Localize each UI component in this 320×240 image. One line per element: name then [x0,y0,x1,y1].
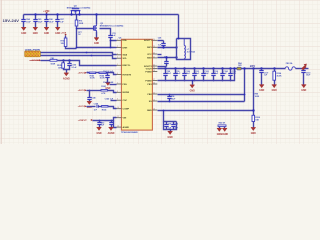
junction bottom C105 [230,80,232,82]
net flag +5VCC rowA [78,72,87,75]
junction bottom C103 [213,80,215,82]
svg-text:C94: C94 [168,123,171,126]
ground under C85 [33,28,38,35]
svg-text:COMP: COMP [123,109,130,111]
wire R75 bottom [66,47,77,49]
svg-text:FB3 3A: FB3 3A [286,62,293,65]
svg-text:GND: GND [96,133,101,135]
junction C107 [260,67,262,69]
svg-text:4.7K: 4.7K [101,92,106,95]
svg-text:100K: 100K [79,23,84,25]
ground under Q5 [94,38,99,45]
svg-text:0.1uF: 0.1uF [72,67,78,69]
svg-text:EN/CYL: EN/CYL [123,65,132,67]
svg-text:16: 16 [153,83,155,85]
wire SDA [41,53,117,55]
wire R104 top [274,69,276,72]
svg-text:VIN: VIN [123,118,127,120]
junction rail C87 [56,13,58,15]
ground R63 right AGND [221,128,228,135]
wire C76 down to DRH [110,41,112,48]
svg-text:AGND: AGND [221,133,228,136]
svg-text:GND: GND [44,33,49,35]
op-amp U6 left pins [117,39,132,129]
junction SDA pullup [86,52,88,54]
junction rowA [87,72,89,74]
svg-text:C148: C148 [94,103,99,106]
resistor R106 [252,115,260,121]
junction C93 [111,120,113,122]
wire inductor frame [177,39,191,60]
ferrite bead FB4 [237,62,243,70]
ground R104 [272,85,277,92]
ground C93 AGND [108,127,115,134]
wire Q4 gate down [76,15,78,21]
svg-text:22V: 22V [250,64,256,68]
wire BOOT2 [158,66,167,68]
svg-text:BSS84(SOT23,-0.13A/5R6): BSS84(SOT23,-0.13A/5R6) [100,24,124,27]
junction C76 DRL [110,40,112,42]
svg-text:TPS65261RHBR: TPS65261RHBR [121,132,138,134]
ground C147 [105,83,110,90]
junction R104 [273,67,275,69]
junction rail C99 [174,67,176,69]
capacitor C104 [220,69,224,81]
svg-text:DRL: DRL [123,40,128,42]
junction C110 [302,67,304,69]
svg-text:C28: C28 [158,37,161,39]
net flag +5VCC rowC [78,105,87,108]
capacitor C107 [259,69,263,74]
wire C110 gnd [303,74,305,85]
svg-text:SW2: SW2 [147,58,153,60]
wire C93 gnd [111,127,113,128]
junction SW1 frame [175,46,177,48]
svg-text:GND: GND [94,43,99,45]
ground under C86 [44,28,49,35]
svg-text:PGND: PGND [145,71,152,73]
svg-text:+5VCC: +5VCC [78,90,86,92]
wire Q5 gate [77,28,94,30]
svg-text:BSS84(SOT23,-0.13A/5R6): BSS84(SOT23,-0.13A/5R6) [67,7,91,10]
wire GND row [158,110,254,112]
wire BOOT1 [158,40,164,42]
ground C107 [259,85,264,92]
net flag +5VA [61,31,67,35]
svg-text:GND: GND [21,33,26,35]
junction Q4 drain [78,13,80,15]
svg-text:R145: R145 [102,108,107,111]
resistor R76 [75,20,84,26]
net flag +5VCC rowB [78,89,87,92]
ground under C87 [55,28,60,35]
resistor R144 [99,72,106,80]
junction fb vert [252,67,254,69]
wire VCC stub [158,54,162,56]
junction fb down rail [243,67,245,69]
junction bottom C99 [175,80,177,82]
wire C107 gnd [261,74,263,85]
junction rail gate [76,14,78,16]
wire C147 gnd [107,80,109,83]
resistor R105 [57,63,64,70]
svg-text:10: 10 [117,107,119,109]
wire VIN row [93,118,117,121]
capacitor C106 [67,61,71,69]
wire flag to R75 [65,36,67,39]
svg-text:DRH: DRH [123,47,128,49]
junction C30 SW2 [165,56,167,58]
capacitor C110 [301,69,305,74]
svg-text:INT/SYN: INT/SYN [123,74,132,76]
junction bank right [233,67,235,69]
svg-text:VOUT: VOUT [146,68,153,70]
ground C145 [87,102,92,109]
wire FB2 row [158,94,245,96]
svg-text:GND: GND [55,33,60,35]
capacitor C30 [164,58,168,67]
wire flag to FB2 [41,60,51,62]
capacitor C101 [192,69,196,81]
junction bottom C98 [165,80,167,82]
wire SS row [158,101,245,103]
svg-text:R63 0R: R63 0R [219,123,226,125]
transistor Q4 [67,4,91,14]
svg-text:10uF: 10uF [49,21,54,23]
wire R104 gnd [274,81,276,85]
svg-text:AGND: AGND [123,126,130,129]
svg-text:+5VCC: +5VCC [78,106,86,108]
capacitor C92 [97,121,101,127]
svg-text:36.5K: 36.5K [277,76,283,78]
junction SW2 frame [175,56,177,58]
transistor Q5 [94,23,124,32]
junction C96 top [169,94,171,96]
resistor R63 [218,123,226,127]
ferrite bead FB2 [50,58,57,66]
ground cap bank [190,85,195,92]
junction rail Q5 [95,13,97,15]
svg-text:14: 14 [153,100,155,102]
wire C76 to DRL [111,40,117,41]
junction rail C102 [202,67,204,69]
capacitor C145 [87,95,91,102]
wire R106 gnd [253,122,255,128]
ground R106 [251,128,256,135]
wire VOUT rail after bead [296,68,309,70]
capacitor C102 [201,69,205,81]
capacitor C105 [228,69,232,81]
junction rail C104 [221,67,223,69]
svg-text:AGND: AGND [63,77,70,80]
junction R105 [62,59,64,61]
inductor L7 [184,39,195,60]
svg-text:GND: GND [259,90,264,92]
wire R105 top [63,61,65,63]
wire rowC a [87,106,96,108]
ground under C84 [21,28,26,35]
wire gnd row drop [164,111,177,122]
junction rail C100 [183,67,185,69]
svg-text:23: 23 [153,46,155,48]
svg-text:12: 12 [117,126,119,128]
capacitor C96 [167,95,171,102]
wire rowA to pin [107,73,117,75]
wire Q5 to gnd [96,32,98,38]
junction bottom C104 [222,80,224,82]
wire CSC stub [111,100,117,102]
junction C28 SW1 [162,46,164,48]
svg-text:MODE: MODE [123,92,130,94]
capacitor C85 [33,15,43,28]
junction drop [163,110,165,112]
resistor R143 [89,72,96,80]
svg-text:C146 1uF: C146 1uF [105,98,114,101]
ground cap pair [168,131,173,138]
svg-text:10uF: 10uF [26,21,31,23]
wire R76 to DRH net [77,27,114,48]
svg-text:GND: GND [251,133,256,135]
junction R75 DRH [76,47,78,49]
junction bottom C102 [203,80,205,82]
svg-text:FSS: FSS [123,84,128,86]
capacitor C103 [211,69,215,81]
junction gnd row [252,109,254,111]
junction rail C98 [164,67,166,69]
capacitor C87 [55,15,64,28]
svg-text:VCC: VCC [147,54,152,56]
junction Q4 source [70,13,72,15]
junction bottom C100 [184,80,186,82]
svg-text:18: 18 [153,70,155,72]
wire rowB a [87,90,102,92]
junction C92 [99,120,101,122]
wire rowA b [96,72,100,74]
svg-text:+5VCC: +5VCC [78,73,86,75]
svg-text:GND: GND [33,33,38,35]
wire agnd lead [66,70,68,73]
wire 22V fb down [244,69,246,102]
svg-text:10uF: 10uF [38,21,43,23]
wire rowC to pin [109,107,117,109]
junction C76 DRH [110,47,112,49]
svg-text:19: 19 [153,67,155,69]
wire bank gnd stub [192,81,194,85]
wire R63 right [224,127,226,129]
svg-text:SCL: SCL [123,58,128,60]
ground AGND usb [63,73,70,80]
capacitor C147 [105,73,109,80]
capacitor C76 [108,34,112,40]
svg-text:FB2: FB2 [51,58,55,60]
svg-text:+5VA: +5VA [61,31,67,34]
wire cap pair bottom [164,122,177,130]
wire C92 gnd [99,127,101,128]
junction C96 bottom [169,101,171,103]
wire +VIN rail [24,14,179,16]
svg-text:R142 86.6K: R142 86.6K [103,81,114,84]
svg-text:GND: GND [272,90,277,92]
net flag +VIN [43,9,49,14]
net flag +5VUSB [29,59,41,62]
wire DRH pin [114,47,117,49]
junction bottom C101 [194,80,196,82]
svg-text:10.0K: 10.0K [100,78,106,80]
wire gnd join [64,69,70,70]
wire VOUT rail [158,68,286,70]
junction rail C86 [45,13,47,15]
svg-text:SW1: SW1 [147,47,153,49]
capacitor C100 [182,69,186,81]
ferrite bead FB3 [285,62,295,70]
svg-text:C95: C95 [175,124,178,126]
svg-text:GND: GND [168,137,173,139]
svg-text:24: 24 [153,39,155,41]
svg-text:15V-24V: 15V-24V [3,19,21,23]
wire fb divider [253,69,255,116]
svg-text:600R: 600R [51,64,56,66]
capacitor C93 [109,121,113,127]
svg-text:11: 11 [117,116,119,118]
svg-text:13: 13 [153,109,155,111]
wire rowC b [99,106,102,108]
junction SCL pullup [91,55,93,57]
svg-text:GND: GND [87,107,92,109]
wire Q5 drain right [100,29,111,34]
svg-text:GND: GND [147,110,152,112]
op-amp U6 right pins [144,39,157,112]
wire SCL [41,56,117,59]
junction rail C85 [34,13,36,15]
net flag VOUT arrow [301,64,307,71]
svg-text:CSC: CSC [123,100,128,102]
svg-text:17: 17 [153,79,155,81]
resistor R145 [102,106,109,108]
connector CN2 USB [25,51,41,57]
svg-text:R141: R141 [101,85,106,88]
capacitor C28 [161,41,165,48]
resistor R104 [273,71,282,80]
svg-text:10.0K: 10.0K [90,78,96,80]
wire rowB to pin [108,91,117,93]
wire FB2 to EN [58,61,117,66]
op-amp U6 body [119,37,153,134]
ground C110 [301,85,306,92]
wire rail corner down [178,15,180,39]
wire AGND pin [114,121,117,128]
svg-text:C145: C145 [91,96,96,99]
capacitor C95 [171,122,175,130]
ground C92 [96,127,101,134]
wire R63 left [219,127,221,129]
wire rail to Q5 [96,15,98,25]
capacitor C94 [164,122,168,130]
svg-text:SDA: SDA [123,54,128,57]
svg-text:+VINPUT: +VINPUT [78,120,88,122]
net flag +VINPUT [78,119,93,122]
junction bank gnd [192,80,194,82]
capacitor C99 [173,69,177,81]
svg-text:15: 15 [153,93,155,95]
svg-text:BOOT1: BOOT1 [144,40,152,42]
capacitor C86 [44,15,54,28]
svg-text:20: 20 [153,65,155,67]
capacitor C148 [97,105,98,108]
svg-text:PGND: PGND [145,80,152,82]
junction rail C101 [193,67,195,69]
junction gate net [76,28,78,30]
svg-text:22: 22 [153,53,155,55]
wire rowB cap drop [89,91,91,95]
svg-text:21: 21 [153,56,155,58]
junction FB2 fb vert [244,94,246,96]
junction pair gnd [170,129,172,131]
wire FSS stub [110,84,117,86]
wire cap pair gnd [170,130,172,132]
junction frame rail [178,38,180,40]
svg-text:100K: 100K [255,96,260,98]
capacitor C84 [21,15,31,28]
svg-text:GND: GND [301,90,306,92]
wire SW2 [158,57,177,59]
svg-text:AGND: AGND [108,132,115,135]
resistor R141 [101,90,108,92]
wire SW1 [158,47,177,49]
junction rail C105 [229,67,231,69]
junction rail C103 [212,67,214,69]
capacitor C98 [163,69,167,81]
junction rowA cap [107,72,109,74]
junction C106 [68,59,70,61]
svg-text:GND: GND [190,90,195,92]
resistor R75 [61,38,67,47]
ground R63 left [217,128,222,135]
junction rowB [89,90,91,92]
wire cap bank bottom [158,69,235,81]
wire rowA a [87,72,90,74]
